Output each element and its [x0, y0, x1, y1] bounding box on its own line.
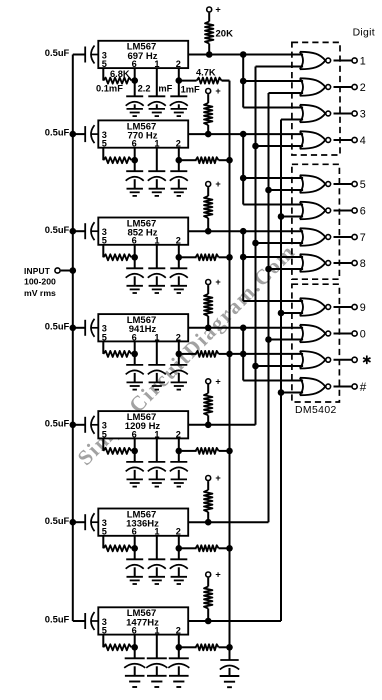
- tone decoder U5 LM567 1209 Hz: [98, 411, 188, 438]
- tone decoder U2 LM567 770 Hz: [98, 120, 188, 147]
- svg-text:1: 1: [154, 332, 159, 342]
- terminal V+ block 1: [207, 7, 212, 12]
- node pin6 junction U7: [131, 644, 138, 651]
- svg-text:INPUT: INPUT: [24, 266, 51, 276]
- terminal digit 0: [352, 331, 357, 336]
- svg-text:9: 9: [360, 302, 366, 314]
- resistor timing R4a: [103, 351, 131, 357]
- wire output U4: [188, 327, 303, 329]
- node fan tap digit *: [240, 351, 247, 358]
- wire input bus: [72, 55, 74, 622]
- wire pin5 stub U7: [102, 635, 104, 648]
- svg-text:DM5402: DM5402: [295, 405, 337, 416]
- ground C5b: [134, 470, 136, 480]
- svg-text:6: 6: [132, 59, 137, 69]
- wire gate9 bottom input: [281, 312, 303, 314]
- wire gate5 bottom input: [269, 189, 304, 191]
- svg-text:5: 5: [102, 139, 107, 149]
- wire 4.7K corner: [222, 80, 230, 82]
- tone decoder U7 LM567 1477Hz: [98, 607, 188, 634]
- svg-text:4.7K: 4.7K: [196, 68, 216, 78]
- wire pin2 stub U5: [178, 438, 180, 451]
- ground C5c: [156, 470, 158, 480]
- resistor pull-up R5c: [207, 384, 209, 393]
- node pull-up junction block 6: [205, 519, 212, 526]
- svg-text:8: 8: [360, 258, 366, 270]
- terminal digit 8: [352, 260, 357, 265]
- node pull-up junction block 5: [205, 422, 212, 429]
- resistor filter R4b: [182, 353, 197, 355]
- capacitor C3a 0.5uF input coupling: [84, 223, 86, 239]
- terminal V+ block 5: [206, 379, 211, 384]
- ground C1b: [134, 104, 136, 109]
- capacitor rail bypass: [220, 659, 238, 661]
- terminal V+ block 6: [206, 476, 211, 481]
- capacitor C5a 0.5uF input coupling: [84, 417, 86, 433]
- capacitor C7a 0.5uF input coupling: [84, 613, 86, 629]
- svg-text:1: 1: [360, 55, 366, 67]
- svg-text:1mF: 1mF: [181, 84, 200, 94]
- node pull-up junction block 7: [205, 618, 212, 625]
- ground C3b: [134, 276, 136, 286]
- wire output gate 2: [334, 86, 352, 88]
- nor gate 6: [300, 202, 303, 219]
- wire gate# top input: [243, 380, 303, 382]
- wire pin1 stub U1: [156, 68, 158, 96]
- svg-text:6: 6: [132, 626, 137, 636]
- svg-text:0.5uF: 0.5uF: [45, 224, 70, 235]
- node input bus taps: [70, 131, 77, 138]
- resistor filter R5b: [182, 450, 197, 452]
- svg-text:6: 6: [132, 332, 137, 342]
- svg-text:1: 1: [154, 236, 159, 246]
- wire pin1 stub U6: [156, 536, 158, 560]
- wire gate# bottom input: [281, 392, 303, 394]
- svg-text:0.5uF: 0.5uF: [45, 417, 70, 428]
- wire 770 fan: [242, 134, 244, 204]
- terminal digit 5: [352, 181, 357, 186]
- wire output gate 5: [334, 183, 352, 185]
- capacitor C1c 2.2mF: [148, 95, 165, 97]
- nor gate *: [300, 351, 303, 368]
- node pin6 junction U6: [131, 545, 138, 552]
- svg-text:0.5uF: 0.5uF: [45, 614, 70, 625]
- capacitor C3d: [178, 257, 180, 268]
- resistor timing R6a: [103, 545, 131, 551]
- node output fan junction block 2: [240, 131, 247, 138]
- node pin2 junction U2: [176, 157, 183, 164]
- wire filter line to gate * top: [230, 353, 304, 355]
- capacitor C4b: [134, 354, 136, 365]
- wire pin6 stub U4: [134, 341, 136, 354]
- node pull-up junction block 1: [206, 51, 213, 58]
- node pin6 junction U5: [131, 448, 138, 455]
- node rail junction block 7: [226, 644, 233, 651]
- wire output gate #: [334, 386, 352, 388]
- svg-text:4: 4: [360, 135, 366, 147]
- svg-text:7: 7: [360, 232, 366, 244]
- wire bus bottom corner to C7a: [73, 620, 85, 622]
- resistor timing R5a: [103, 448, 131, 454]
- resistor pull-up R6c: [207, 481, 209, 490]
- wire gate9 top input: [243, 300, 303, 302]
- wire pin2 stub U6: [178, 536, 180, 549]
- capacitor C6b: [134, 548, 136, 559]
- terminal digit *: [352, 357, 357, 362]
- resistor pull-up R1c 20K: [208, 13, 210, 22]
- terminal digit 2: [352, 84, 357, 89]
- resistor timing R2a: [103, 157, 131, 163]
- resistor pull-up R7c: [207, 578, 209, 587]
- svg-text:1: 1: [154, 139, 159, 149]
- nor gate 7: [300, 228, 303, 245]
- node pin2 junction U6: [176, 545, 183, 552]
- ground C3c: [156, 276, 158, 286]
- dashed box DM5402 gates 1-4: [292, 42, 340, 155]
- capacitor C5d: [178, 451, 180, 462]
- wire 1209 feed: [255, 67, 257, 425]
- tone decoder U4 LM567 941Hz: [98, 314, 188, 341]
- wire pin6 stub U6: [134, 536, 136, 549]
- wire gate3 top input: [243, 107, 303, 109]
- svg-text:1: 1: [154, 626, 159, 636]
- svg-text:5: 5: [102, 626, 107, 636]
- capacitor C1a 0.5uF input coupling: [84, 47, 86, 63]
- wire output gate 0: [334, 333, 352, 335]
- terminal digit 1: [352, 58, 357, 63]
- svg-text:+: +: [215, 5, 220, 15]
- capacitor C1d 1mF: [178, 81, 180, 97]
- wire output U7: [188, 620, 281, 622]
- terminal digit 3: [352, 111, 357, 116]
- resistor timing R3a: [103, 254, 131, 260]
- node pin6 junction U3: [131, 254, 138, 261]
- capacitor C7d: [178, 647, 180, 658]
- wire pin6 stub U1: [134, 68, 136, 81]
- capacitor C6d: [178, 548, 180, 559]
- terminal INPUT: [55, 268, 60, 273]
- svg-text:6: 6: [132, 139, 137, 149]
- svg-text:2: 2: [176, 139, 181, 149]
- ground C1c: [156, 104, 158, 109]
- wire gate2 bottom input: [269, 92, 304, 94]
- wire pin5 stub U5: [102, 438, 104, 451]
- node pin6 junction U4: [131, 351, 138, 358]
- capacitor C5c: [148, 461, 165, 463]
- wire gate8 bottom input: [269, 268, 304, 270]
- wire output gate 4: [334, 139, 352, 141]
- svg-text:2: 2: [176, 332, 181, 342]
- svg-text:2: 2: [176, 429, 181, 439]
- wire output U3: [188, 230, 303, 232]
- svg-text:2: 2: [176, 626, 181, 636]
- ground C3d: [178, 276, 180, 286]
- nor gate 3: [300, 105, 303, 122]
- ground C7d: [178, 666, 180, 676]
- wire gate7 bottom input: [256, 242, 304, 244]
- wire pin2 stub U7: [178, 635, 180, 648]
- wire pin2 stub U1: [178, 68, 180, 81]
- terminal digit #: [352, 384, 357, 389]
- capacitor C6a 0.5uF input coupling: [84, 514, 86, 530]
- svg-text:+: +: [215, 377, 220, 387]
- terminal digit 9: [352, 304, 357, 309]
- resistor filter R2b: [182, 159, 197, 161]
- node output fan junction block 1: [240, 51, 247, 58]
- wire pin5 stub U4: [102, 341, 104, 354]
- capacitor C7c: [147, 657, 167, 659]
- ground C7c: [156, 666, 158, 676]
- wire gate6 top input: [243, 204, 303, 206]
- wire output gate *: [334, 359, 352, 361]
- tone decoder U3 LM567 852 Hz: [98, 218, 188, 245]
- node rail junction block 4: [226, 351, 233, 358]
- label digit *: [366, 356, 368, 365]
- wire output U5: [188, 424, 255, 426]
- resistor filter R6b: [182, 547, 197, 549]
- wire pin6 stub U7: [134, 635, 136, 648]
- svg-text:2: 2: [176, 236, 181, 246]
- svg-text:2: 2: [176, 527, 181, 537]
- node rail junction block 5: [226, 448, 233, 455]
- dashed box DM5402 gates 5-8: [292, 164, 340, 279]
- node INPUT junction: [70, 267, 77, 274]
- wire 1336 feed: [268, 93, 270, 522]
- wire pin2 stub U4: [178, 341, 180, 354]
- node pin2 junction U4: [176, 351, 183, 358]
- svg-text:20K: 20K: [216, 29, 234, 40]
- ground C2b: [134, 179, 136, 189]
- svg-text:2.2: 2.2: [138, 83, 151, 93]
- wire gate5 top input: [243, 177, 303, 179]
- ground C7b: [134, 666, 136, 676]
- svg-text:5: 5: [102, 429, 107, 439]
- node pin2 junction U5: [176, 448, 183, 455]
- wire pin6 stub U5: [134, 438, 136, 451]
- svg-text:6: 6: [132, 429, 137, 439]
- wire 852 fan: [242, 231, 244, 301]
- wire pin5 stub U1: [102, 68, 104, 81]
- svg-text:+: +: [215, 179, 220, 189]
- wire output U6: [188, 521, 268, 523]
- ground C1d: [178, 104, 180, 109]
- terminal digit 6: [352, 208, 357, 213]
- svg-text:6: 6: [360, 205, 366, 217]
- capacitor C3b: [134, 257, 136, 268]
- wire gate3 bottom input: [281, 119, 303, 121]
- node pin6 junction U2: [131, 157, 138, 164]
- terminal digit 4: [352, 137, 357, 142]
- tone decoder U1 LM567 697 Hz: [98, 41, 188, 68]
- svg-text:+: +: [215, 277, 220, 287]
- capacitor C2c: [148, 170, 165, 172]
- svg-text:+: +: [215, 473, 220, 483]
- nor gate 8: [300, 254, 303, 271]
- svg-text:Digit: Digit: [353, 27, 375, 38]
- ground C6c: [156, 567, 158, 577]
- resistor filter R3b: [182, 256, 197, 258]
- node output fan junction block 4: [240, 325, 247, 332]
- wire output U2: [188, 133, 303, 135]
- wire pin1 stub U2: [156, 148, 158, 172]
- wire pin6 stub U2: [134, 148, 136, 161]
- svg-text:1: 1: [154, 527, 159, 537]
- svg-text:5: 5: [102, 332, 107, 342]
- terminal V+ block 3: [206, 182, 211, 187]
- svg-text:#: #: [360, 380, 367, 394]
- terminal V+ block 2: [206, 89, 211, 94]
- wire output gate 8: [334, 262, 352, 264]
- capacitor C2d: [178, 160, 180, 171]
- nor gate 2: [300, 78, 303, 95]
- capacitor C1b 0.1mF: [134, 81, 136, 97]
- svg-text:6: 6: [132, 236, 137, 246]
- wire 941 fan: [242, 328, 244, 381]
- svg-text:2: 2: [176, 59, 181, 69]
- capacitor C7b: [134, 647, 136, 658]
- nor gate 4: [300, 131, 303, 148]
- svg-text:0.5uF: 0.5uF: [45, 515, 70, 526]
- wire pin1 stub U3: [156, 245, 158, 268]
- ground C6d: [178, 567, 180, 577]
- capacitor C5b: [134, 451, 136, 462]
- capacitor C4a 0.5uF input coupling: [84, 320, 86, 336]
- wire pin5 stub U2: [102, 148, 104, 161]
- svg-text:0.5uF: 0.5uF: [45, 320, 70, 331]
- resistor timing R1a 6.8K: [103, 78, 131, 84]
- wire pin2 stub U2: [178, 148, 180, 161]
- terminal V+ block 7: [206, 572, 211, 577]
- wire pin1 stub U4: [156, 341, 158, 365]
- node pull-up junction block 4: [205, 325, 212, 332]
- wire pin1 stub U7: [156, 635, 158, 659]
- terminal digit 7: [352, 234, 357, 239]
- svg-text:1: 1: [154, 59, 159, 69]
- svg-text:+: +: [215, 86, 220, 96]
- wire bus to C6a: [73, 521, 85, 523]
- resistor filter R7b: [182, 646, 197, 648]
- node rail junction block 6: [226, 545, 233, 552]
- svg-text:5: 5: [102, 527, 107, 537]
- svg-text:0.1mF: 0.1mF: [96, 83, 123, 93]
- wire output gate 3: [334, 113, 352, 115]
- nor gate 5: [300, 175, 303, 192]
- svg-text:+: +: [215, 570, 220, 580]
- resistor pull-up R2c: [207, 94, 209, 103]
- svg-text:2: 2: [360, 82, 366, 94]
- svg-text:0.5uF: 0.5uF: [45, 47, 70, 58]
- svg-text:100-200: 100-200: [24, 277, 56, 287]
- ground C5d: [178, 470, 180, 480]
- wire pin6 stub U3: [134, 245, 136, 257]
- tone decoder U6 LM567 1336Hz: [98, 509, 188, 536]
- node pin6 junction U1: [131, 77, 138, 84]
- svg-text:5: 5: [102, 236, 107, 246]
- resistor timing R7a: [103, 644, 131, 650]
- wire pin5 stub U6: [102, 536, 104, 549]
- svg-text:3: 3: [360, 108, 366, 120]
- capacitor C3c: [148, 267, 165, 269]
- wire bus to C5a: [73, 424, 85, 426]
- wire rail vertical: [229, 81, 231, 660]
- node pin2 junction U7: [176, 644, 183, 651]
- ground C6b: [134, 567, 136, 577]
- nor gate #: [300, 378, 303, 395]
- wire 1477 feed: [280, 120, 282, 622]
- nor gate 1: [300, 52, 303, 69]
- wire output gate 6: [334, 210, 352, 212]
- wire gate8 top input: [243, 256, 303, 258]
- node pull-up junction block 2: [205, 131, 212, 138]
- node pull-up junction block 3: [205, 228, 212, 235]
- wire pin2 stub U3: [178, 245, 180, 257]
- wire gate2 top input: [243, 80, 303, 82]
- wire bus to C4a: [73, 327, 85, 329]
- wire gate1 bottom input: [256, 66, 304, 68]
- svg-text:0.5uF: 0.5uF: [45, 127, 70, 138]
- svg-text:6: 6: [132, 527, 137, 537]
- wire output U1: [188, 54, 303, 56]
- wire output gate 7: [334, 236, 352, 238]
- wire output gate 1: [334, 60, 352, 62]
- wire gate4 bottom input: [256, 145, 304, 147]
- wire bus to C3a: [73, 230, 85, 232]
- svg-text:1: 1: [154, 429, 159, 439]
- svg-text:5: 5: [360, 179, 366, 191]
- ground C2c: [156, 179, 158, 189]
- node pin2 junction U3: [176, 254, 183, 261]
- dashed box DM5402 gates 9 0 * #: [292, 284, 340, 402]
- nor gate 9: [300, 298, 303, 315]
- nor gate 0: [300, 325, 303, 342]
- node rail junction block 2: [226, 157, 233, 164]
- node output fan junction block 3: [240, 228, 247, 235]
- wire gate* bottom input: [256, 365, 304, 367]
- wire pin5 stub U3: [102, 245, 104, 257]
- capacitor C2a 0.5uF input coupling: [84, 126, 86, 142]
- wire bus top corner to C1a: [73, 54, 85, 56]
- svg-text:5: 5: [102, 59, 107, 69]
- svg-text:0: 0: [360, 328, 366, 340]
- wire output gate 9: [334, 306, 352, 308]
- resistor pull-up R4c: [207, 285, 209, 294]
- ground C4b: [134, 373, 136, 383]
- node rail junction block 3: [226, 254, 233, 261]
- terminal V+ block 4: [206, 280, 211, 285]
- wire pin1 stub U5: [156, 438, 158, 462]
- svg-text:mV rms: mV rms: [24, 288, 56, 298]
- wire gate0 bottom input: [269, 339, 304, 341]
- node pin2 junction U1: [176, 77, 183, 84]
- ground C4d: [178, 373, 180, 383]
- svg-text:6.8K: 6.8K: [110, 69, 130, 79]
- svg-text:mF: mF: [158, 83, 172, 93]
- ground C2d: [178, 179, 180, 189]
- ground rail bypass: [229, 668, 231, 676]
- resistor pull-up R3c: [207, 187, 209, 196]
- capacitor C4c: [148, 364, 165, 366]
- capacitor C2b: [134, 160, 136, 171]
- wire bus to C2a: [73, 133, 85, 135]
- resistor filter R1b 4.7K: [179, 80, 197, 82]
- capacitor C6c: [148, 558, 165, 560]
- wire gate6 bottom input: [281, 216, 303, 218]
- wire 697 fan: [242, 55, 244, 108]
- ground C4c: [156, 373, 158, 383]
- capacitor C4d: [178, 354, 180, 365]
